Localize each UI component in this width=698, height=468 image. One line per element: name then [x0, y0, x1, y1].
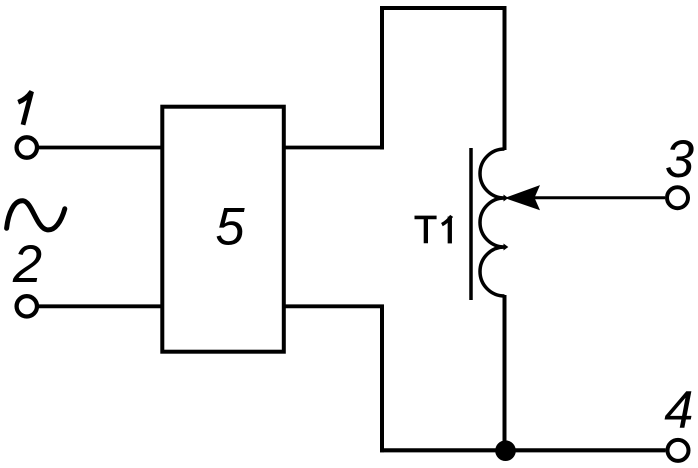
svg-text:2: 2 — [12, 235, 42, 294]
wire bottom drop — [380, 306, 384, 452]
wire terminal2 to block — [39, 304, 162, 308]
wire coil bottom to junction — [503, 295, 507, 450]
wire block to bottom drop — [284, 304, 384, 308]
terminal 3 — [667, 187, 688, 208]
winding cusp tick upper — [504, 195, 509, 202]
block 5 — [162, 107, 283, 352]
svg-text:5: 5 — [215, 198, 245, 257]
label 1 — [18, 92, 31, 125]
wire top horizontal — [380, 6, 507, 10]
transformer T1 core — [469, 148, 473, 300]
svg-text:3: 3 — [665, 130, 694, 189]
wire terminal1 to block — [39, 146, 162, 150]
terminal 1 — [17, 137, 37, 157]
winding cusp tick lower — [504, 244, 509, 251]
wiper arrowhead — [505, 185, 541, 210]
svg-text:4: 4 — [664, 381, 693, 440]
junction dot — [495, 440, 516, 461]
label T1 letter T — [415, 216, 437, 244]
wire top riser left — [380, 6, 384, 150]
wire top riser right to coil — [503, 6, 507, 150]
wire bottom horizontal — [380, 448, 666, 452]
AC source symbol ~ — [7, 201, 65, 230]
label T1 digit 1 — [448, 217, 452, 244]
terminal 4 — [668, 440, 689, 461]
terminal 2 — [17, 296, 37, 316]
wire block to top riser — [284, 146, 384, 150]
wiper arrow line — [534, 196, 665, 199]
transformer T1 winding — [480, 149, 505, 296]
